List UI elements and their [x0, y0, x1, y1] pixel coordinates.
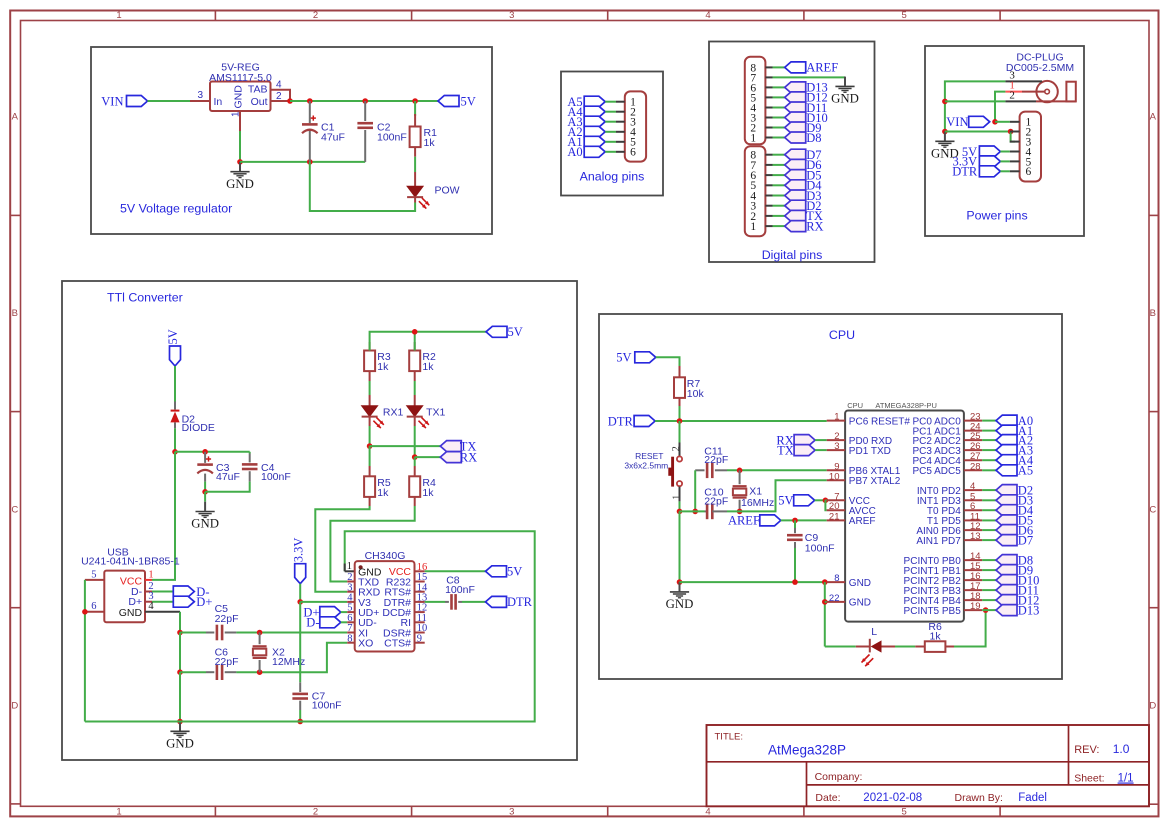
net flag A2: [584, 126, 605, 137]
wire pin 3 to D10: [773, 117, 785, 119]
svg-text:100nF: 100nF: [377, 132, 407, 144]
junction C5 left: [177, 630, 183, 636]
svg-text:DIODE: DIODE: [182, 422, 215, 434]
net flag D8: [785, 132, 806, 143]
wire A1 to pin 5: [605, 141, 616, 143]
capacitor C5 22pF: [206, 632, 214, 634]
wire 5V rail ttl: [370, 332, 486, 351]
pin 1 GND of regulator: [239, 111, 241, 131]
wire pin 6 to D13: [773, 86, 785, 88]
svg-text:1: 1: [750, 132, 756, 144]
svg-text:10k: 10k: [687, 388, 705, 400]
svg-text:DTR: DTR: [507, 595, 533, 609]
pin 5 INT1 PD3 of MCU: [964, 499, 982, 501]
wire pin 8 to AREF: [773, 66, 785, 68]
svg-text:TITLE:: TITLE:: [715, 732, 744, 743]
svg-text:Power pins: Power pins: [966, 209, 1027, 223]
svg-text:GND: GND: [849, 578, 871, 589]
wire pin 26 to A3: [982, 449, 996, 451]
wire pin 24 to A1: [982, 430, 996, 432]
junction reset node: [677, 418, 683, 424]
svg-text:Date:: Date:: [815, 792, 840, 804]
wire DTR# to C8: [425, 601, 445, 603]
pin 28 PC5 ADC5 of MCU: [964, 469, 982, 471]
wire pin 25 to A2: [982, 439, 996, 441]
net flag A5: [996, 465, 1017, 476]
frame column ticks bottom: [214, 806, 216, 816]
net flag D- ch340: [320, 617, 341, 628]
net flag A0: [584, 146, 605, 157]
connector P3 body lower: [745, 146, 766, 236]
pin 25 PC2 ADC2 of MCU: [964, 439, 982, 441]
frame column ticks top: [214, 10, 216, 21]
capacitor C4 100nF: [249, 452, 251, 454]
junction RX node: [412, 454, 418, 460]
wire pin 4 to D3: [773, 195, 785, 197]
pin 2 of USB D-: [145, 591, 152, 593]
svg-text:1: 1: [672, 495, 683, 500]
svg-text:CH340G: CH340G: [365, 550, 406, 562]
capacitor C1 47uF polarized: [309, 101, 311, 123]
svg-text:L: L: [871, 626, 877, 638]
svg-text:REV:: REV:: [1074, 744, 1099, 756]
svg-text:AtMega328P: AtMega328P: [768, 742, 846, 757]
net flag DTR power: [979, 166, 1000, 177]
net flag D- usb: [173, 586, 194, 597]
net flag D10: [996, 575, 1017, 586]
wire pin 13 to D7: [982, 539, 996, 541]
svg-text:1: 1: [834, 412, 839, 423]
pin 2 of analog connector: [616, 111, 625, 113]
net flag A3: [996, 445, 1017, 456]
svg-text:1k: 1k: [930, 630, 942, 642]
wire pin 6 to D4: [982, 509, 996, 511]
svg-text:1/1: 1/1: [1118, 773, 1134, 785]
svg-text:VIN: VIN: [101, 94, 123, 108]
wire pin 16 to D10: [982, 579, 996, 581]
svg-text:3: 3: [509, 807, 514, 818]
svg-text:B: B: [1150, 308, 1156, 319]
pin 10 PB7 XTAL2 of MCU: [827, 479, 845, 481]
wire 3.3V to V3: [299, 584, 301, 602]
svg-text:D: D: [11, 701, 18, 712]
svg-text:CTS#: CTS#: [384, 638, 411, 650]
net flag 5V vcc cpu: [794, 495, 815, 506]
pin 2 Out of regulator: [271, 100, 291, 102]
svg-text:5V Voltage regulator: 5V Voltage regulator: [120, 202, 232, 216]
net flag TX: [785, 210, 806, 221]
capacitor C8 100nF: [445, 601, 449, 603]
junction C3/C4 gnd: [202, 489, 208, 495]
wire pin 7 to D6: [773, 164, 785, 166]
wire gnd row xtal: [680, 510, 705, 512]
wire D2 to VCC node: [174, 428, 176, 452]
svg-text:4: 4: [705, 10, 710, 21]
svg-text:100nF: 100nF: [261, 471, 291, 483]
pin 6 of power connector: [1010, 170, 1020, 172]
svg-text:2: 2: [671, 446, 682, 451]
svg-text:C: C: [1149, 504, 1156, 515]
svg-text:D8: D8: [806, 131, 821, 145]
pin 3 of USB D+: [145, 601, 152, 603]
net flag D13: [996, 605, 1017, 616]
wire usb left vertical: [84, 580, 86, 722]
pin 6 UD- of CH340: [347, 621, 355, 623]
net flag 5V power: [979, 146, 1000, 157]
svg-text:2: 2: [276, 91, 282, 102]
resistor R1 1k: [414, 101, 416, 116]
pin 12 DCD# of CH340: [415, 611, 425, 613]
wire pin 1 to D8: [773, 137, 785, 139]
capacitor C3 47uF: [204, 452, 206, 463]
net flag D7: [785, 149, 806, 160]
wire pin 3 to D2: [773, 205, 785, 207]
wire RX1 to TX node: [369, 426, 371, 446]
pin 1 of DC jack: [1005, 91, 1022, 93]
svg-text:6: 6: [630, 147, 636, 159]
MCU U4 ATMEGA328P-PU body: [845, 411, 964, 622]
svg-text:6: 6: [91, 601, 96, 612]
wire R7 to DTR net: [679, 406, 681, 421]
svg-text:AMS1117-5.0: AMS1117-5.0: [209, 72, 272, 84]
net flag 5V ttl rail: [486, 326, 507, 337]
net flag D4: [785, 180, 806, 191]
wire XTAL2 net: [727, 480, 827, 511]
pin 2 PD0 RXD of MCU: [827, 439, 845, 441]
connector P1 body: [625, 91, 646, 161]
pin 11 RI of CH340: [415, 621, 425, 623]
USB connector U1 body: [104, 571, 145, 623]
net flag VIN: [127, 96, 148, 107]
wire led to R6: [825, 646, 856, 648]
capacitor C9 100nF: [794, 520, 796, 528]
wire gnd to conn pin2: [945, 131, 1011, 133]
svg-text:POW: POW: [435, 185, 460, 197]
ground symbol regulator: [239, 162, 241, 171]
wire gnd down to C6: [179, 633, 181, 673]
svg-text:100nF: 100nF: [312, 700, 342, 712]
net flag D2: [785, 200, 806, 211]
pin 5 of power connector: [1010, 160, 1020, 162]
net flag D13: [785, 82, 806, 93]
net flag A0: [996, 415, 1017, 426]
svg-text:GND: GND: [191, 517, 219, 531]
wire to C6: [180, 671, 206, 673]
svg-text:47uF: 47uF: [321, 132, 345, 144]
svg-text:Analog pins: Analog pins: [580, 170, 645, 184]
svg-text:DC005-2.5MM: DC005-2.5MM: [1006, 62, 1074, 74]
pin 4 TAB of regulator: [271, 90, 291, 101]
svg-text:C: C: [11, 504, 18, 515]
junction C1 top: [307, 98, 313, 104]
wire VCC node to C4: [175, 451, 250, 453]
svg-text:5: 5: [91, 569, 96, 580]
svg-text:28: 28: [970, 461, 981, 472]
net flag DTR cpu: [634, 416, 655, 427]
wire gnd to pin8: [680, 581, 827, 583]
svg-text:GND: GND: [831, 92, 859, 106]
svg-text:GND: GND: [226, 177, 254, 191]
crystal X2 12MHz: [259, 633, 261, 645]
capacitor C10 22pF: [705, 510, 708, 512]
svg-text:1.0: 1.0: [1113, 742, 1130, 756]
wire gnd vertical cpu: [679, 511, 681, 582]
net flag VIN power: [969, 116, 990, 127]
junction R1 top: [412, 98, 418, 104]
svg-text:1: 1: [116, 807, 121, 818]
net flag 5V ch340: [486, 566, 507, 577]
svg-text:10: 10: [829, 471, 840, 482]
resistor R4 1k: [414, 457, 416, 466]
svg-text:Fadel: Fadel: [1018, 792, 1047, 804]
junction VCC node: [172, 449, 178, 455]
net flag 5V cpu: [635, 352, 656, 363]
svg-text:D13: D13: [1018, 603, 1040, 617]
regulator U2 AMS1117-5.0 body: [210, 82, 271, 112]
net flag D5: [996, 515, 1017, 526]
net flag A2: [996, 435, 1017, 446]
pin 14 PCINT0 PB0 of MCU: [964, 559, 982, 561]
pin 4 V3 of CH340: [347, 601, 355, 603]
svg-text:1k: 1k: [422, 487, 434, 499]
pin 5 UD+ of CH340: [347, 611, 355, 613]
pin 1 of power connector: [1010, 121, 1020, 123]
svg-text:AIN1 PD7: AIN1 PD7: [916, 536, 961, 547]
pin 18 PCINT4 PB4 of MCU: [964, 599, 982, 601]
svg-text:2021-02-08: 2021-02-08: [863, 792, 922, 804]
net flag D5: [785, 170, 806, 181]
net flag D6: [785, 159, 806, 170]
svg-text:A: A: [1150, 112, 1157, 123]
wire A2 to pin 4: [605, 131, 616, 133]
pin 3 of power connector: [1010, 141, 1020, 143]
pin 12 AIN0 PD6 of MCU: [964, 529, 982, 531]
net flag RX ttl: [440, 452, 461, 463]
net flag A4: [996, 455, 1017, 466]
capacitor C6 22pF: [206, 671, 214, 673]
resistor R5 1k: [369, 446, 371, 466]
pin 20 AVCC of MCU: [827, 509, 845, 511]
svg-text:D-: D-: [306, 616, 319, 630]
pin 22 GND of MCU: [827, 601, 845, 603]
wire pin 7 to GND: [773, 76, 846, 78]
capacitor C11 22pF: [715, 469, 727, 471]
pin 1 PC6 RESET# of MCU: [827, 420, 845, 422]
pin 8 XO of CH340: [347, 642, 355, 644]
wire pin 28 to A5: [982, 469, 996, 471]
wire 5V to R7: [656, 357, 680, 366]
svg-text:1: 1: [750, 221, 756, 233]
wire TX to PD1: [815, 449, 827, 451]
wire pin 23 to A0: [982, 420, 996, 422]
svg-text:22pF: 22pF: [215, 613, 239, 625]
wire jack pin3 to gnd rail: [945, 81, 1006, 131]
svg-text:GND: GND: [119, 607, 143, 619]
wire C5 to XI: [236, 632, 347, 634]
svg-text:1k: 1k: [424, 137, 436, 149]
wire VIN to conn pin1: [995, 121, 1010, 123]
svg-text:47uF: 47uF: [216, 471, 240, 483]
junction gnd node: [237, 159, 243, 165]
wire button to gnd: [679, 487, 681, 502]
pin 6 T0 PD4 of MCU: [964, 509, 982, 511]
pin 6 of analog connector: [616, 151, 625, 153]
net flag A5: [584, 96, 605, 107]
ground symbol digital: [844, 77, 846, 86]
junction bottom gnd C7: [297, 719, 303, 725]
wire A3 to pin 3: [605, 121, 616, 123]
wire pin 14 to D8: [982, 559, 996, 561]
wire pin 4 to D2: [982, 489, 996, 491]
net flag D12: [996, 595, 1017, 606]
svg-text:3.3V: 3.3V: [291, 538, 305, 563]
pin 10 DSR# of CH340: [415, 632, 425, 634]
svg-text:19: 19: [970, 601, 981, 612]
net flag D6: [996, 525, 1017, 536]
pin 2 of DC jack: [1005, 100, 1036, 102]
net flag AREF cpu: [760, 515, 781, 526]
junction V3 node: [297, 599, 303, 605]
frame row ticks right: [1149, 214, 1158, 216]
pin 17 PCINT3 PB3 of MCU: [964, 589, 982, 591]
wire pin 15 to D9: [982, 569, 996, 571]
wire 5V to conn pin4: [1000, 151, 1009, 153]
svg-text:22pF: 22pF: [704, 495, 728, 507]
svg-text:Company:: Company:: [815, 771, 863, 783]
pin 26 PC3 ADC3 of MCU: [964, 449, 982, 451]
svg-text:1: 1: [148, 569, 153, 580]
crystal X1 16MHz: [739, 470, 741, 484]
svg-text:D+: D+: [196, 595, 212, 609]
junction R2 top: [412, 329, 418, 335]
net flag A3: [584, 116, 605, 127]
svg-text:PC5 ADC5: PC5 ADC5: [912, 466, 961, 477]
svg-text:3: 3: [509, 10, 514, 21]
svg-text:GND: GND: [166, 736, 194, 750]
net flag D+ ch340: [320, 607, 341, 618]
net flag D11: [996, 585, 1017, 596]
wire R6 to pin19: [954, 610, 986, 646]
pin 2 of power connector: [1010, 131, 1020, 133]
wire gnd rail to C2: [240, 161, 365, 163]
pin 3 PD1 TXD of MCU: [827, 449, 845, 451]
LED TX1: [414, 381, 416, 395]
net flag D8: [996, 555, 1017, 566]
pin 7 XI of CH340: [347, 632, 355, 634]
svg-text:AREF: AREF: [849, 516, 876, 527]
pin 3 RXD of CH340: [347, 591, 355, 593]
net flag D12: [785, 92, 806, 103]
wire usb gnd down: [179, 612, 181, 633]
pin 13 AIN1 PD7 of MCU: [964, 539, 982, 541]
wire V3 to chip: [300, 601, 347, 603]
net flag D4: [996, 505, 1017, 516]
section box Digital pins: [709, 42, 875, 263]
wire pin 5 to D3: [982, 499, 996, 501]
svg-text:ATMEGA328P-PU: ATMEGA328P-PU: [875, 401, 937, 410]
net flag TX ttl: [440, 441, 461, 452]
svg-text:4: 4: [705, 807, 710, 818]
pin 14 RTS# of CH340: [415, 591, 425, 593]
wire C3 bottom: [204, 482, 206, 492]
pin 24 PC1 ADC1 of MCU: [964, 430, 982, 432]
svg-text:GND: GND: [849, 598, 871, 609]
junction TX node: [367, 443, 373, 449]
junction usb pin6: [82, 609, 88, 615]
wire RX flag: [415, 456, 441, 458]
svg-text:4: 4: [276, 80, 282, 91]
svg-text:5: 5: [902, 10, 907, 21]
pin 15 PCINT1 PB1 of MCU: [964, 569, 982, 571]
pin 4 of USB GND: [145, 611, 180, 613]
title block frame: [707, 725, 1150, 806]
ground symbol cpu: [679, 582, 681, 591]
wire pin 19 to D13: [982, 609, 996, 611]
svg-text:AREF: AREF: [728, 514, 760, 528]
svg-text:TTl Converter: TTl Converter: [107, 291, 183, 305]
svg-text:3: 3: [834, 441, 839, 452]
pin 11 T1 PD5 of MCU: [964, 519, 982, 521]
pin 2 TXD of CH340: [347, 581, 355, 583]
svg-text:PD1 TXD: PD1 TXD: [849, 446, 891, 457]
pin 7 VCC of MCU: [827, 499, 845, 501]
wire usb gnd to bottom rail: [179, 672, 181, 721]
wire C8 to DTR flag: [462, 601, 486, 603]
svg-text:DTR: DTR: [952, 165, 978, 179]
junction C3 top: [202, 449, 208, 455]
svg-text:22pF: 22pF: [704, 454, 728, 466]
svg-text:2: 2: [1009, 89, 1015, 101]
net flag D7: [996, 535, 1017, 546]
wire regulator gnd: [239, 131, 241, 162]
LED L: [856, 646, 870, 648]
wire pin 5 to D12: [773, 96, 785, 98]
pin 23 PC0 ADC0 of MCU: [964, 420, 982, 422]
pin 1 of analog connector: [616, 101, 625, 103]
connector P2 body upper: [745, 57, 766, 145]
wire 3.3V to conn pin5: [1000, 160, 1009, 162]
svg-text:A5: A5: [1018, 464, 1033, 478]
wire pin 1 to RX: [773, 225, 785, 227]
wire pin 12 to D6: [982, 529, 996, 531]
wire 5V rail: [290, 100, 438, 102]
wire VIN to U2 pin3: [148, 100, 191, 102]
svg-text:5V: 5V: [461, 94, 476, 108]
svg-text:TAB: TAB: [248, 84, 268, 96]
section box Analog pins: [561, 72, 663, 196]
wire pin 8 to D7: [773, 154, 785, 156]
svg-text:16MHz: 16MHz: [741, 497, 774, 509]
svg-text:5V: 5V: [778, 494, 793, 508]
section box CPU: [599, 314, 1062, 679]
ground symbol ttl bottom: [179, 722, 181, 731]
pin 13 DTR# of CH340: [415, 601, 425, 603]
net flag A4: [584, 106, 605, 117]
net flag DTR ch340: [486, 596, 507, 607]
wire pin 5 to D4: [773, 184, 785, 186]
wire LED return: [310, 162, 415, 211]
junction button gnd: [677, 509, 683, 515]
wire A4 to pin 2: [605, 111, 616, 113]
wire 5V to D2: [174, 366, 176, 402]
svg-text:RX: RX: [806, 219, 823, 233]
svg-text:GND: GND: [233, 85, 245, 109]
wire XTAL1 net: [727, 469, 827, 471]
resistor R7 10k: [679, 366, 681, 377]
svg-text:X1: X1: [749, 486, 762, 498]
ground symbol power: [944, 132, 946, 141]
pin 3 of analog connector: [616, 121, 625, 123]
